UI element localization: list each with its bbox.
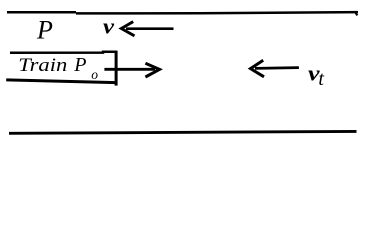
air velocity arrow pointing left (121, 22, 173, 36)
train box top edge (10, 52, 117, 53)
tick at right end of top wall (355, 13, 357, 16)
svg-text:o: o (91, 67, 98, 82)
svg-text:P: P (73, 54, 86, 76)
air speed relative arrow vt pointing left (251, 60, 299, 77)
svg-text:Train: Train (18, 55, 67, 76)
tunnel top wall (7, 12, 358, 13)
svg-text:v: v (103, 13, 114, 38)
train box right edge (115, 51, 118, 86)
svg-text:t: t (318, 68, 324, 90)
train velocity arrow pointing right (104, 63, 159, 77)
train box bottom edge (6, 80, 116, 83)
tunnel bottom wall (9, 131, 357, 133)
svg-text:P: P (36, 16, 53, 45)
